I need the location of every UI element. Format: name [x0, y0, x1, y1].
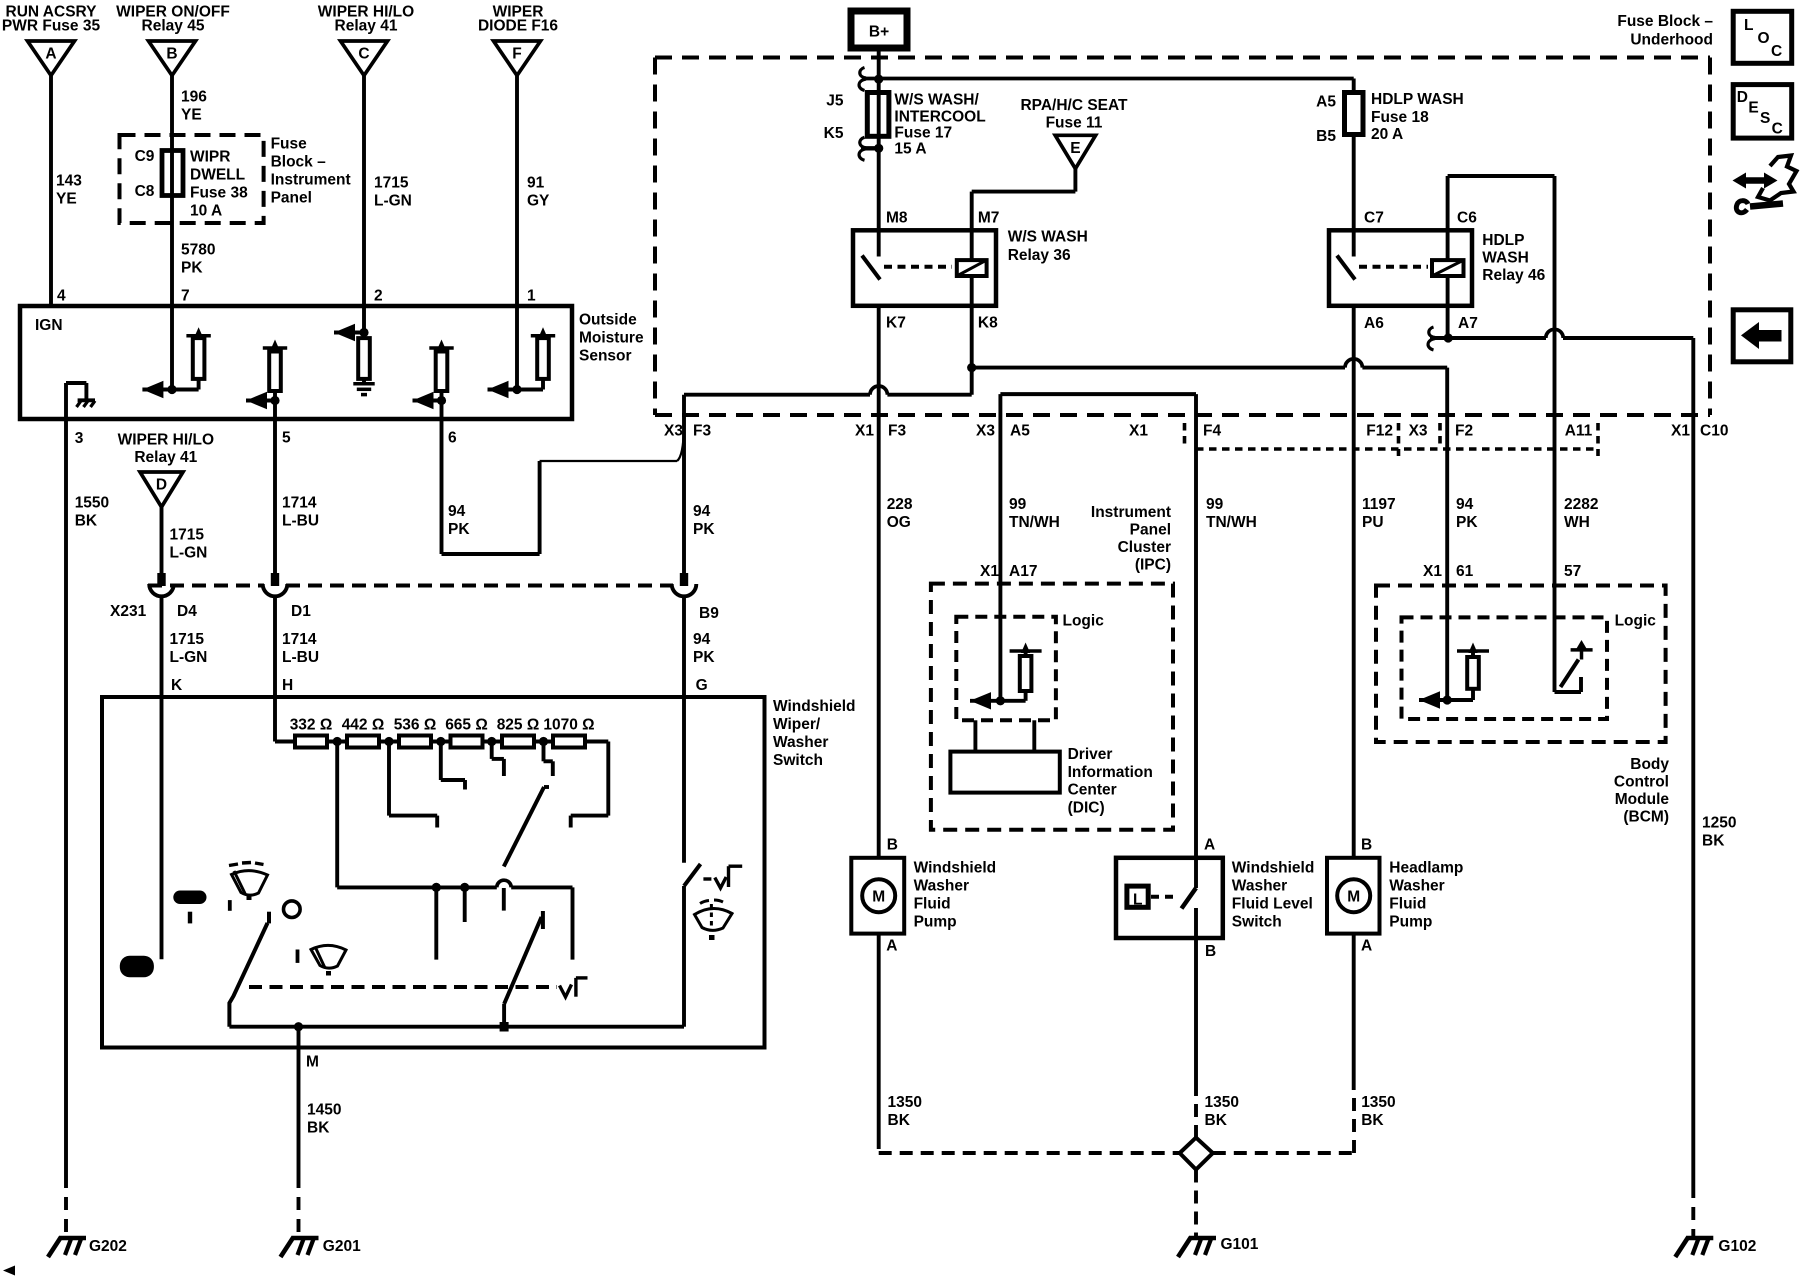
svg-text:A: A [45, 46, 56, 63]
svg-text:K5: K5 [824, 125, 844, 142]
svg-text:4: 4 [57, 288, 66, 305]
svg-text:Driver: Driver [1068, 746, 1113, 763]
svg-text:Fluid: Fluid [914, 896, 951, 913]
svg-text:BK: BK [888, 1112, 911, 1129]
svg-text:665 Ω: 665 Ω [445, 717, 488, 734]
svg-text:Relay 45: Relay 45 [142, 18, 205, 35]
svg-text:Sensor: Sensor [579, 348, 632, 365]
svg-text:Fuse 38: Fuse 38 [190, 185, 248, 202]
svg-text:F3: F3 [888, 423, 906, 440]
svg-text:Washer: Washer [773, 734, 828, 751]
svg-text:Fuse: Fuse [271, 136, 308, 153]
svg-text:X3: X3 [664, 423, 683, 440]
svg-text:BK: BK [1205, 1112, 1228, 1129]
svg-text:G201: G201 [323, 1238, 361, 1255]
svg-text:Wiper/: Wiper/ [773, 716, 821, 733]
svg-text:A: A [1204, 837, 1215, 854]
svg-text:Body: Body [1630, 756, 1669, 773]
svg-text:M7: M7 [978, 210, 1000, 227]
svg-text:536 Ω: 536 Ω [394, 717, 437, 734]
svg-text:D: D [156, 477, 167, 494]
svg-text:1250: 1250 [1702, 815, 1736, 832]
svg-text:Cluster: Cluster [1118, 539, 1171, 556]
svg-text:IGN: IGN [35, 317, 63, 334]
svg-text:X3: X3 [1409, 423, 1428, 440]
svg-text:(BCM): (BCM) [1623, 809, 1669, 826]
svg-text:Relay 41: Relay 41 [134, 449, 197, 466]
svg-text:1714: 1714 [282, 495, 317, 512]
svg-text:(IPC): (IPC) [1135, 557, 1171, 574]
svg-text:PK: PK [448, 521, 470, 538]
svg-text:228: 228 [887, 496, 913, 513]
svg-text:825 Ω: 825 Ω [497, 717, 540, 734]
svg-text:L-GN: L-GN [170, 649, 208, 666]
svg-text:Washer: Washer [1389, 878, 1444, 895]
svg-text:B: B [887, 837, 898, 854]
svg-text:TN/WH: TN/WH [1009, 514, 1060, 531]
svg-text:Panel: Panel [271, 190, 312, 207]
svg-text:6: 6 [448, 430, 457, 447]
svg-text:INTERCOOL: INTERCOOL [894, 109, 985, 126]
svg-text:PK: PK [693, 649, 715, 666]
svg-text:X1: X1 [980, 563, 999, 580]
svg-text:B5: B5 [1316, 128, 1336, 145]
svg-text:L: L [1744, 17, 1753, 34]
svg-text:1715: 1715 [170, 631, 205, 648]
svg-text:1714: 1714 [282, 631, 317, 648]
svg-text:94: 94 [448, 503, 466, 520]
svg-text:J5: J5 [826, 93, 844, 110]
svg-text:196: 196 [181, 89, 207, 106]
svg-text:(DIC): (DIC) [1068, 799, 1105, 816]
svg-text:2: 2 [374, 288, 383, 305]
svg-text:S: S [1760, 110, 1770, 127]
svg-text:10 A: 10 A [190, 203, 222, 220]
svg-text:94: 94 [693, 631, 711, 648]
svg-text:5780: 5780 [181, 242, 215, 259]
svg-text:Block –: Block – [271, 154, 327, 171]
svg-text:M: M [1347, 889, 1360, 906]
svg-text:C: C [358, 46, 369, 63]
svg-text:HDLP: HDLP [1482, 232, 1524, 249]
svg-text:L-GN: L-GN [170, 545, 208, 562]
svg-text:61: 61 [1456, 563, 1474, 580]
svg-text:DWELL: DWELL [190, 167, 245, 184]
svg-text:Moisture: Moisture [579, 330, 644, 347]
svg-text:B: B [1361, 837, 1372, 854]
svg-text:Fuse Block –: Fuse Block – [1617, 13, 1713, 30]
svg-text:Fluid: Fluid [1389, 896, 1426, 913]
svg-text:B9: B9 [699, 605, 719, 622]
svg-text:Instrument: Instrument [1091, 504, 1171, 521]
svg-text:F: F [512, 46, 521, 63]
svg-text:Center: Center [1068, 782, 1117, 799]
svg-text:C8: C8 [135, 183, 155, 200]
svg-text:1197: 1197 [1362, 496, 1396, 513]
svg-text:GY: GY [527, 193, 550, 210]
svg-text:OG: OG [887, 514, 911, 531]
svg-text:BK: BK [1361, 1112, 1384, 1129]
svg-text:F12: F12 [1366, 423, 1393, 440]
svg-text:Fluid Level: Fluid Level [1232, 896, 1313, 913]
svg-text:D1: D1 [291, 603, 311, 620]
svg-text:Windshield: Windshield [1232, 860, 1315, 877]
svg-text:Pump: Pump [1389, 914, 1432, 931]
svg-text:332 Ω: 332 Ω [290, 717, 333, 734]
svg-text:1715: 1715 [170, 527, 205, 544]
svg-text:Fuse 11: Fuse 11 [1046, 115, 1103, 132]
svg-text:Relay 46: Relay 46 [1482, 267, 1545, 284]
svg-text:99: 99 [1206, 496, 1224, 513]
svg-text:Fuse 17: Fuse 17 [894, 125, 952, 142]
svg-text:WH: WH [1564, 514, 1590, 531]
svg-text:X1: X1 [1423, 563, 1442, 580]
svg-text:Panel: Panel [1130, 522, 1171, 539]
svg-text:91: 91 [527, 175, 545, 192]
svg-text:B: B [1205, 943, 1216, 960]
svg-text:L-BU: L-BU [282, 649, 319, 666]
svg-text:Switch: Switch [1232, 914, 1282, 931]
svg-text:BK: BK [1702, 833, 1725, 850]
svg-text:A7: A7 [1458, 315, 1478, 332]
svg-text:X1: X1 [855, 423, 874, 440]
svg-text:5: 5 [282, 430, 291, 447]
svg-text:1: 1 [527, 288, 536, 305]
svg-text:X3: X3 [976, 423, 995, 440]
svg-text:L: L [1133, 892, 1142, 909]
svg-text:3: 3 [75, 430, 84, 447]
svg-text:2282: 2282 [1564, 496, 1598, 513]
svg-text:B+: B+ [869, 24, 889, 41]
svg-text:PK: PK [181, 260, 203, 277]
svg-text:99: 99 [1009, 496, 1027, 513]
svg-text:WIPER HI/LO: WIPER HI/LO [118, 432, 214, 449]
svg-text:1350: 1350 [888, 1094, 922, 1111]
svg-text:D4: D4 [177, 603, 197, 620]
svg-text:G102: G102 [1718, 1238, 1756, 1255]
svg-text:M8: M8 [886, 210, 908, 227]
svg-text:A: A [1361, 938, 1372, 955]
svg-text:Information: Information [1068, 764, 1153, 781]
svg-text:15 A: 15 A [894, 141, 926, 158]
svg-text:Fuse 18: Fuse 18 [1371, 109, 1429, 126]
svg-text:Control: Control [1614, 774, 1669, 791]
svg-text:Outside: Outside [579, 312, 637, 329]
svg-text:7: 7 [181, 288, 190, 305]
svg-text:PK: PK [1456, 514, 1478, 531]
svg-text:1550: 1550 [75, 495, 109, 512]
svg-text:94: 94 [693, 503, 711, 520]
svg-text:HDLP WASH: HDLP WASH [1371, 91, 1464, 108]
svg-text:DIODE F16: DIODE F16 [478, 18, 558, 35]
svg-text:PK: PK [693, 521, 715, 538]
svg-text:C: C [1771, 43, 1782, 60]
svg-text:Pump: Pump [914, 914, 957, 931]
svg-text:WASH: WASH [1482, 250, 1529, 267]
svg-text:YE: YE [181, 107, 202, 124]
svg-text:1450: 1450 [307, 1102, 341, 1119]
svg-text:K7: K7 [886, 315, 906, 332]
svg-text:C9: C9 [135, 148, 155, 165]
svg-text:A11: A11 [1565, 423, 1593, 440]
svg-text:PWR Fuse 35: PWR Fuse 35 [2, 18, 101, 35]
svg-text:D: D [1737, 89, 1748, 106]
svg-text:A: A [886, 938, 897, 955]
svg-text:Relay 41: Relay 41 [335, 18, 398, 35]
svg-text:PU: PU [1362, 514, 1384, 531]
svg-text:Relay 36: Relay 36 [1008, 247, 1071, 264]
svg-text:E: E [1748, 100, 1758, 117]
svg-text:M: M [872, 889, 885, 906]
svg-text:G101: G101 [1221, 1236, 1259, 1253]
svg-text:X231: X231 [110, 603, 147, 620]
svg-text:G: G [696, 677, 708, 694]
svg-text:Windshield: Windshield [914, 860, 997, 877]
svg-text:O: O [1758, 30, 1770, 47]
svg-text:442 Ω: 442 Ω [342, 717, 385, 734]
svg-text:B: B [166, 46, 177, 63]
svg-text:F3: F3 [693, 423, 711, 440]
svg-text:BK: BK [75, 513, 98, 530]
svg-text:W/S WASH/: W/S WASH/ [894, 92, 979, 109]
svg-text:1715: 1715 [374, 175, 409, 192]
svg-text:C10: C10 [1700, 423, 1728, 440]
svg-text:Washer: Washer [914, 878, 969, 895]
svg-text:L-BU: L-BU [282, 513, 319, 530]
svg-text:20 A: 20 A [1371, 126, 1403, 143]
svg-text:Instrument: Instrument [271, 172, 351, 189]
svg-text:BK: BK [307, 1120, 330, 1137]
svg-text:94: 94 [1456, 496, 1474, 513]
svg-text:C: C [1772, 121, 1783, 138]
svg-text:L-GN: L-GN [374, 193, 412, 210]
svg-text:C7: C7 [1364, 210, 1384, 227]
svg-text:Module: Module [1615, 791, 1670, 808]
svg-text:G202: G202 [89, 1238, 127, 1255]
svg-text:F4: F4 [1203, 423, 1221, 440]
svg-text:1350: 1350 [1361, 1094, 1395, 1111]
svg-text:143: 143 [56, 173, 82, 190]
svg-text:Switch: Switch [773, 752, 823, 769]
svg-text:Windshield: Windshield [773, 698, 856, 715]
svg-text:Logic: Logic [1063, 612, 1105, 629]
svg-text:W/S WASH: W/S WASH [1008, 229, 1088, 246]
svg-text:WIPR: WIPR [190, 149, 230, 166]
svg-text:E: E [1070, 140, 1080, 157]
svg-text:RPA/H/C SEAT: RPA/H/C SEAT [1020, 97, 1128, 114]
svg-text:TN/WH: TN/WH [1206, 514, 1257, 531]
svg-text:1070 Ω: 1070 Ω [543, 717, 594, 734]
svg-text:K: K [171, 677, 183, 694]
svg-text:Headlamp: Headlamp [1389, 860, 1463, 877]
svg-text:A5: A5 [1316, 94, 1336, 111]
svg-text:Logic: Logic [1615, 612, 1657, 629]
svg-text:K8: K8 [978, 315, 998, 332]
svg-text:M: M [306, 1054, 319, 1071]
svg-text:A5: A5 [1010, 423, 1030, 440]
svg-text:A17: A17 [1009, 563, 1037, 580]
svg-text:Washer: Washer [1232, 878, 1287, 895]
svg-text:F2: F2 [1455, 423, 1473, 440]
svg-text:A6: A6 [1364, 315, 1384, 332]
svg-text:Underhood: Underhood [1630, 32, 1713, 49]
svg-text:X1: X1 [1129, 423, 1148, 440]
svg-text:YE: YE [56, 191, 77, 208]
svg-text:57: 57 [1564, 563, 1581, 580]
svg-text:X1: X1 [1671, 423, 1690, 440]
svg-text:H: H [282, 677, 293, 694]
svg-text:1350: 1350 [1205, 1094, 1239, 1111]
svg-text:C6: C6 [1457, 210, 1477, 227]
